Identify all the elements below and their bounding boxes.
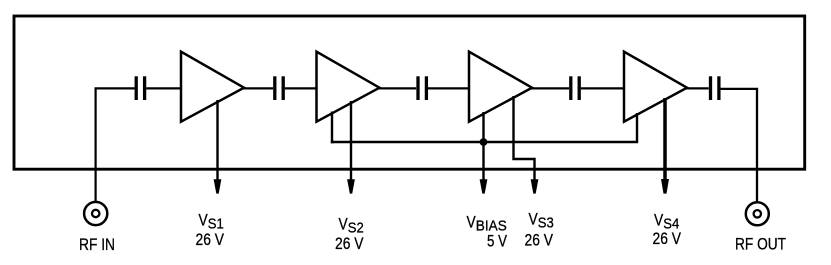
supply pin VS3 with jog — [514, 96, 539, 194]
svg-text:26 V: 26 V — [196, 230, 225, 249]
label VS2 — [339, 215, 364, 237]
label VS3 — [529, 210, 554, 232]
value 26 V (VS1) — [196, 230, 225, 249]
op-amp A3 — [469, 52, 532, 122]
op-amp A2 — [317, 52, 380, 122]
svg-text:V: V — [654, 210, 664, 229]
supply pin VS4 — [661, 98, 669, 194]
capacitor C4 — [571, 76, 579, 100]
wire C1 to A1 — [146, 87, 181, 89]
svg-text:V: V — [529, 210, 539, 229]
value 5 V (VBIAS) — [487, 231, 508, 250]
wire A2 bias pin down — [332, 112, 334, 143]
label RF IN — [79, 235, 115, 254]
wire A2 to C3 — [379, 87, 417, 89]
op-amp A4 — [624, 52, 687, 122]
capacitor C5 — [711, 76, 719, 100]
svg-text:RF OUT: RF OUT — [735, 234, 786, 253]
wire C5 to output corner — [721, 89, 758, 203]
wire bias bus — [331, 141, 638, 143]
svg-text:26 V: 26 V — [653, 229, 682, 248]
wire A3 to C4 — [531, 87, 569, 89]
svg-text:26 V: 26 V — [335, 234, 364, 253]
svg-text:V: V — [467, 212, 477, 231]
supply pin VS1 — [214, 100, 222, 194]
label RF OUT — [735, 234, 786, 253]
wire A1 to C2 — [243, 87, 273, 89]
svg-text:V: V — [339, 215, 349, 234]
label VS1 — [199, 211, 224, 233]
svg-text:V: V — [199, 211, 209, 230]
capacitor C1 — [136, 76, 144, 100]
wire C4 to A4 — [581, 87, 624, 89]
op-amp A1 — [181, 52, 244, 122]
label VS4 — [654, 210, 679, 232]
wire A4 to C5 — [686, 87, 709, 89]
svg-text:26 V: 26 V — [525, 230, 554, 249]
capacitor C2 — [275, 76, 283, 100]
capacitor C3 — [418, 76, 426, 100]
value 26 V (VS2) — [335, 234, 364, 253]
supply pin VS2 — [347, 101, 355, 194]
package outline — [14, 16, 805, 169]
connector J1 RF IN — [84, 202, 107, 225]
wire C3 to A3 — [428, 87, 469, 89]
connector J2 RF OUT — [746, 202, 769, 225]
svg-text:S3: S3 — [538, 215, 554, 232]
supply pin VBIAS — [480, 112, 488, 194]
value 26 V (VS4) — [653, 229, 682, 248]
wire C2 to A2 — [285, 87, 317, 89]
wire RF IN vertical — [94, 88, 96, 202]
label VBIAS — [467, 212, 507, 234]
wire A4 bias pin down — [636, 113, 638, 142]
svg-text:5 V: 5 V — [487, 231, 508, 250]
value 26 V (VS3) — [525, 230, 554, 249]
junction bias node — [480, 138, 488, 146]
svg-text:RF IN: RF IN — [79, 235, 115, 254]
wire input to C1 — [95, 87, 135, 89]
